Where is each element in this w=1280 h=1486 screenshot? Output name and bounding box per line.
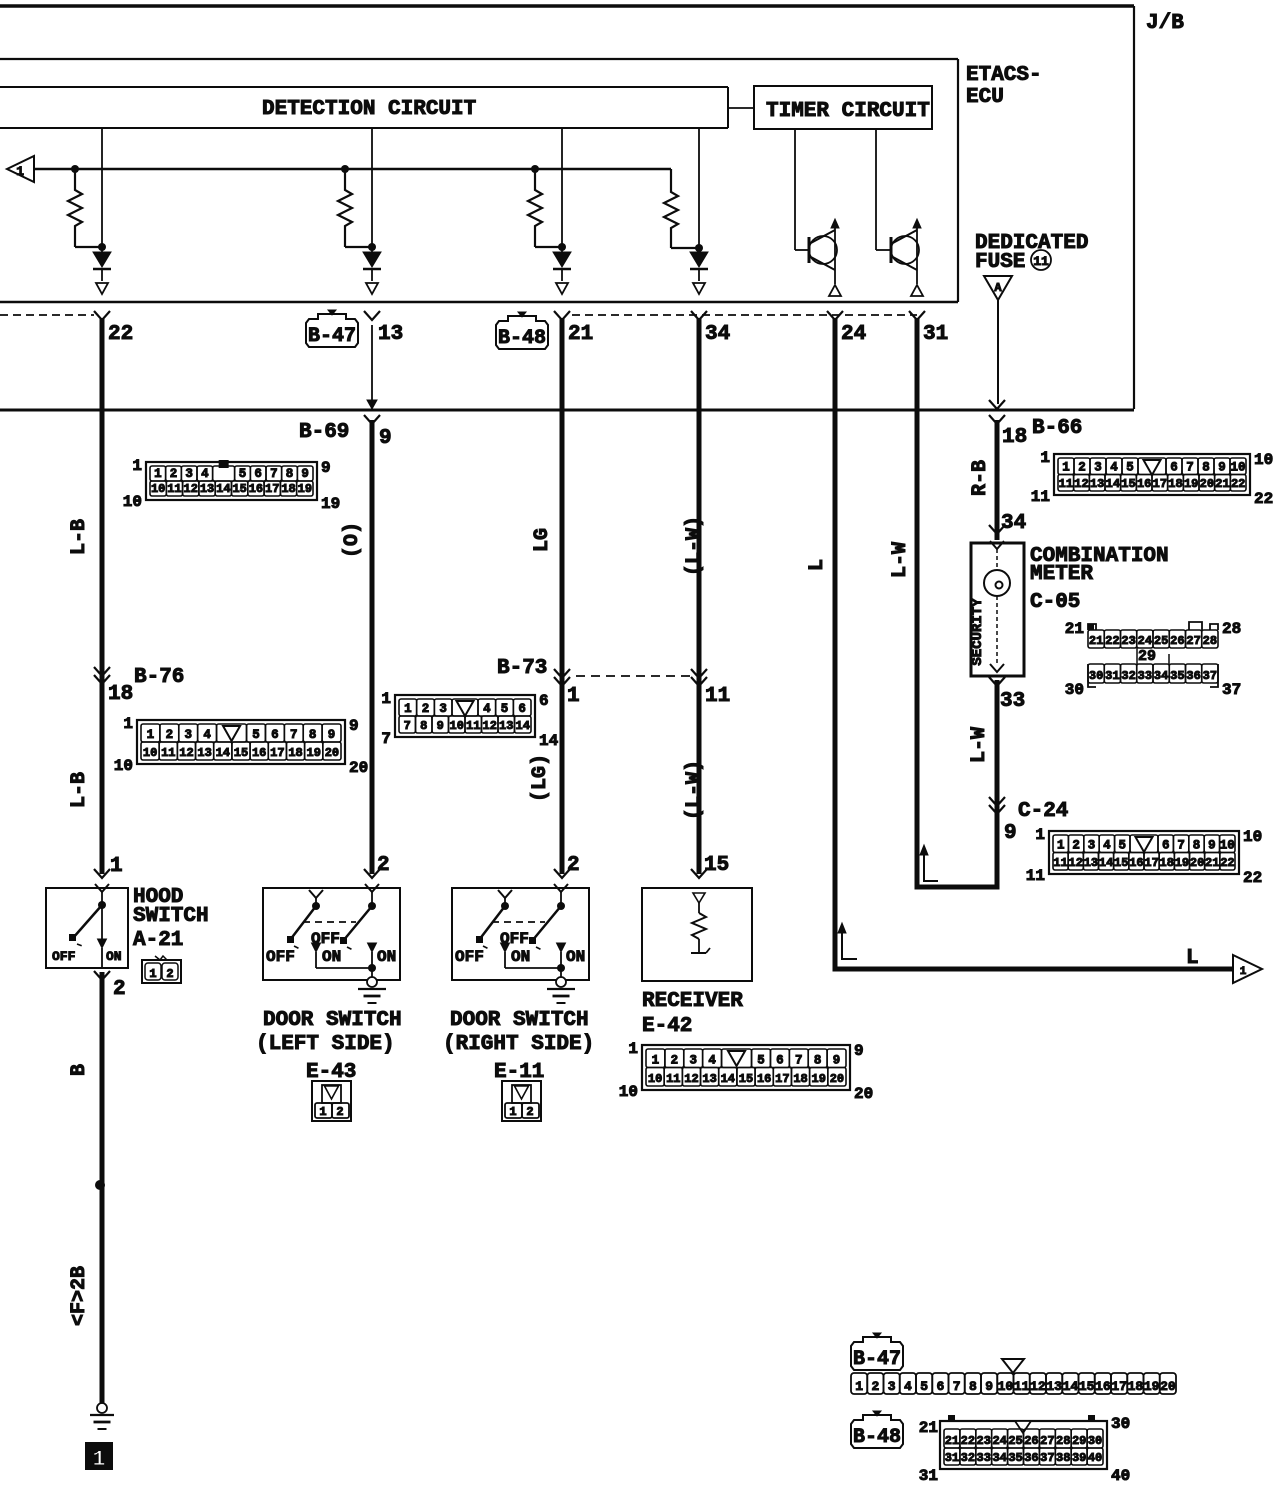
svg-text:19: 19 <box>307 746 321 760</box>
svg-text:1: 1 <box>110 855 123 878</box>
svg-text:27: 27 <box>1186 634 1200 648</box>
svg-text:20: 20 <box>830 1072 844 1086</box>
svg-text:18: 18 <box>793 1072 807 1086</box>
svg-text:1: 1 <box>149 967 156 981</box>
svg-text:20: 20 <box>325 746 339 760</box>
node receiver pin 15 <box>691 854 729 878</box>
svg-text:(L-W): (L-W) <box>683 516 706 576</box>
svg-text:B-73: B-73 <box>497 657 547 680</box>
svg-text:4: 4 <box>483 702 491 716</box>
svg-text:5: 5 <box>1126 461 1134 475</box>
svg-text:5: 5 <box>252 728 260 742</box>
label connector C-24 <box>1018 800 1068 823</box>
svg-text:8: 8 <box>286 467 294 481</box>
svg-text:DETECTION CIRCUIT: DETECTION CIRCUIT <box>262 98 476 121</box>
node ETACS pin 21 terminal <box>554 311 593 346</box>
label OFF hood <box>52 949 76 964</box>
svg-text:3: 3 <box>184 728 192 742</box>
svg-text:13: 13 <box>702 1072 716 1086</box>
svg-text:B-66: B-66 <box>1032 417 1082 440</box>
svg-text:(O): (O) <box>341 522 364 558</box>
svg-text:OFF: OFF <box>266 948 295 966</box>
svg-text:OFF: OFF <box>500 930 529 948</box>
svg-text:ON: ON <box>106 949 122 964</box>
svg-text:21: 21 <box>1205 856 1219 870</box>
wire dashed B-73 link <box>576 675 692 677</box>
svg-text:16: 16 <box>1137 477 1151 491</box>
label ON door right right <box>566 948 585 966</box>
svg-text:14: 14 <box>1106 477 1120 491</box>
svg-text:1: 1 <box>1240 966 1247 978</box>
label ON door left right <box>377 948 396 966</box>
svg-text:2: 2 <box>671 1054 679 1068</box>
label wire color LG <box>531 528 554 552</box>
svg-text:R-B: R-B <box>969 460 992 496</box>
svg-text:2: 2 <box>170 467 178 481</box>
svg-text:RECEIVER: RECEIVER <box>642 990 743 1013</box>
label OFF door left <box>266 948 295 966</box>
svg-text:11: 11 <box>666 1072 680 1086</box>
label RECEIVER E-42 <box>642 990 743 1038</box>
connector B-66 pin layout <box>1031 449 1273 508</box>
svg-text:11: 11 <box>1033 254 1049 269</box>
label DOOR SWITCH (RIGHT SIDE) E-11 <box>443 1009 594 1084</box>
label J/B <box>1146 12 1184 35</box>
node combination meter pin 34 <box>989 512 1026 535</box>
svg-text:6: 6 <box>254 467 262 481</box>
hood switch A-21 box <box>46 888 128 968</box>
svg-text:10: 10 <box>1220 839 1235 853</box>
svg-text:7: 7 <box>1186 461 1194 475</box>
svg-text:13: 13 <box>1046 1379 1062 1394</box>
svg-text:10: 10 <box>1254 451 1273 469</box>
connector C-05 pin layout <box>1065 620 1241 699</box>
svg-text:10: 10 <box>114 757 133 775</box>
label wire color L <box>806 559 829 571</box>
connector E-43 pin icon <box>312 1081 351 1121</box>
svg-text:21: 21 <box>919 1419 938 1437</box>
svg-text:33: 33 <box>1138 669 1152 683</box>
svg-text:28: 28 <box>1203 634 1217 648</box>
svg-text:L-W: L-W <box>889 542 912 578</box>
connector B-47 label <box>306 310 358 348</box>
svg-text:3: 3 <box>1088 839 1096 853</box>
svg-text:22: 22 <box>108 323 133 346</box>
svg-text:26: 26 <box>1024 1434 1038 1448</box>
svg-text:LG: LG <box>531 528 554 552</box>
label wire color L-B lower <box>68 772 91 808</box>
label OFF door left upper <box>311 930 340 948</box>
svg-text:21: 21 <box>1215 477 1229 491</box>
svg-text:1: 1 <box>1062 461 1070 475</box>
svg-text:30: 30 <box>1088 1434 1102 1448</box>
svg-text:DOOR SWITCH: DOOR SWITCH <box>450 1009 589 1032</box>
connector E-42 pin layout <box>619 1040 873 1103</box>
svg-text:15: 15 <box>704 854 729 877</box>
svg-text:18: 18 <box>1002 426 1027 449</box>
svg-text:TIMER CIRCUIT: TIMER CIRCUIT <box>766 100 930 123</box>
svg-text:L-B: L-B <box>68 519 91 555</box>
svg-text:4: 4 <box>708 1054 716 1068</box>
svg-text:20: 20 <box>349 759 368 777</box>
label ON door left <box>322 948 341 966</box>
diode D3 <box>553 128 571 294</box>
label connector B-66 <box>1002 417 1082 449</box>
svg-text:10: 10 <box>151 482 165 496</box>
svg-text:20: 20 <box>1190 856 1204 870</box>
svg-text:ECU: ECU <box>966 86 1004 109</box>
fuse dedicated fuse symbol A <box>984 276 1012 300</box>
svg-text:9: 9 <box>1208 839 1216 853</box>
detection circuit block <box>0 87 728 128</box>
svg-text:14: 14 <box>721 1072 735 1086</box>
node hood switch pin 1 <box>94 855 123 878</box>
svg-text:20: 20 <box>854 1085 873 1103</box>
svg-text:8: 8 <box>969 1379 977 1394</box>
label wire color (L-W) lower <box>683 760 706 820</box>
svg-text:2: 2 <box>422 702 430 716</box>
svg-text:8: 8 <box>309 728 317 742</box>
switch door switch left side E-43 <box>263 884 400 980</box>
node hood switch pin 2 <box>94 971 126 1001</box>
svg-text:A: A <box>994 281 1002 295</box>
svg-text:17: 17 <box>1153 477 1167 491</box>
svg-text:14: 14 <box>216 746 230 760</box>
svg-text:33: 33 <box>1000 690 1025 713</box>
svg-text:4: 4 <box>1103 839 1111 853</box>
node ETACS pin 24 terminal <box>827 311 866 346</box>
svg-text:12: 12 <box>1069 856 1083 870</box>
svg-text:16: 16 <box>757 1072 771 1086</box>
ETACS connector dashed line <box>0 314 917 316</box>
svg-text:6: 6 <box>776 1054 784 1068</box>
svg-text:2: 2 <box>526 1105 533 1119</box>
svg-text:40: 40 <box>1111 1467 1130 1485</box>
svg-text:13: 13 <box>499 719 513 733</box>
svg-text:10: 10 <box>1243 828 1262 846</box>
svg-text:22: 22 <box>1105 634 1119 648</box>
svg-text:17: 17 <box>270 746 284 760</box>
node junction bus R1 <box>71 165 79 173</box>
ground hood switch circuit <box>90 1403 114 1429</box>
svg-text:24: 24 <box>992 1434 1006 1448</box>
label wire color L-B <box>68 519 91 555</box>
svg-text:C-05: C-05 <box>1030 591 1080 614</box>
svg-text:7: 7 <box>953 1379 961 1394</box>
svg-text:7: 7 <box>381 730 391 748</box>
svg-text:17: 17 <box>775 1072 789 1086</box>
svg-text:28: 28 <box>1056 1434 1070 1448</box>
svg-text:2: 2 <box>377 854 390 877</box>
svg-text:1: 1 <box>154 467 162 481</box>
svg-text:3: 3 <box>439 702 447 716</box>
label wire color (LG) <box>529 754 552 802</box>
svg-text:14: 14 <box>516 719 530 733</box>
svg-text:19: 19 <box>812 1072 826 1086</box>
svg-text:15: 15 <box>234 746 248 760</box>
svg-text:1: 1 <box>404 702 412 716</box>
wire L-W meter to C-24 <box>995 680 1000 812</box>
svg-text:11: 11 <box>167 482 181 496</box>
svg-text:13: 13 <box>197 746 211 760</box>
svg-text:22: 22 <box>1220 856 1234 870</box>
node door switch left pin 2 <box>364 854 390 878</box>
svg-text:6: 6 <box>539 692 549 710</box>
svg-text:10: 10 <box>1230 461 1245 475</box>
combination meter box C-05 <box>971 543 1024 676</box>
svg-text:OFF: OFF <box>52 949 76 964</box>
svg-text:16: 16 <box>1095 1379 1111 1394</box>
svg-text:9: 9 <box>349 717 359 735</box>
label ON door right <box>511 948 530 966</box>
svg-text:9: 9 <box>301 467 309 481</box>
svg-text:5: 5 <box>1119 839 1127 853</box>
label wire color L-W <box>889 542 912 578</box>
svg-text:16: 16 <box>1129 856 1143 870</box>
svg-text:22: 22 <box>1243 869 1262 887</box>
svg-text:1: 1 <box>132 457 142 475</box>
svg-text:11: 11 <box>705 685 730 708</box>
svg-text:<F>2B: <F>2B <box>68 1266 91 1326</box>
svg-text:ON: ON <box>511 948 530 966</box>
svg-text:26: 26 <box>1170 634 1184 648</box>
svg-text:10: 10 <box>143 746 157 760</box>
wire B hood switch to ground <box>95 972 105 1403</box>
svg-text:(RIGHT SIDE): (RIGHT SIDE) <box>443 1033 594 1056</box>
node ETACS pin 31 terminal <box>909 311 948 346</box>
svg-text:8: 8 <box>814 1054 822 1068</box>
svg-text:8: 8 <box>420 719 427 733</box>
connector B-47 pin layout <box>851 1359 1176 1394</box>
svg-text:12: 12 <box>483 719 497 733</box>
svg-text:(L-W): (L-W) <box>683 760 706 820</box>
svg-text:2: 2 <box>166 967 173 981</box>
label ETACS-ECU <box>966 64 1042 109</box>
svg-text:16: 16 <box>252 746 266 760</box>
svg-text:8: 8 <box>1193 839 1201 853</box>
svg-text:18: 18 <box>108 683 133 706</box>
connector C-24 pin layout <box>1026 826 1262 887</box>
svg-text:34: 34 <box>1001 512 1026 535</box>
svg-text:5: 5 <box>757 1054 765 1068</box>
svg-text:28: 28 <box>1222 620 1241 638</box>
svg-text:1: 1 <box>16 164 24 179</box>
connector B-69 pin layout <box>123 457 340 513</box>
receiver box E-42 <box>642 888 752 981</box>
wire L-B pin 22 to hood switch <box>100 318 105 874</box>
svg-text:7: 7 <box>795 1054 803 1068</box>
svg-text:1: 1 <box>92 1447 105 1472</box>
svg-text:L: L <box>1186 947 1199 970</box>
svg-text:OFF: OFF <box>311 930 340 948</box>
svg-text:19: 19 <box>321 495 340 513</box>
svg-text:31: 31 <box>923 323 948 346</box>
svg-text:22: 22 <box>1254 490 1273 508</box>
svg-text:31: 31 <box>1105 669 1119 683</box>
wire meter internal bottom <box>996 596 998 665</box>
switch door switch right side E-11 <box>452 884 589 980</box>
node meter internal terminal top <box>990 541 1004 549</box>
svg-text:3: 3 <box>185 467 193 481</box>
connector B-48 label <box>496 312 548 350</box>
label connector B-69 <box>299 421 392 450</box>
svg-text:18: 18 <box>1128 1379 1144 1394</box>
svg-text:13: 13 <box>1084 856 1098 870</box>
label L at page arrow <box>1186 947 1199 970</box>
svg-text:B-47: B-47 <box>853 1348 901 1371</box>
label HOOD SWITCH A-21 <box>133 886 209 952</box>
svg-text:DOOR SWITCH: DOOR SWITCH <box>263 1009 402 1032</box>
svg-text:21: 21 <box>1089 634 1103 648</box>
svg-text:6: 6 <box>936 1379 944 1394</box>
svg-text:9: 9 <box>1218 461 1226 475</box>
svg-text:12: 12 <box>179 746 193 760</box>
label wire color L-W to C-24 <box>968 727 991 763</box>
wire fuse to connector B-66 <box>997 300 999 404</box>
svg-text:38: 38 <box>1056 1451 1070 1465</box>
svg-text:B: B <box>68 1064 91 1076</box>
svg-text:OFF: OFF <box>455 948 484 966</box>
svg-text:6: 6 <box>1162 839 1170 853</box>
svg-text:32: 32 <box>961 1451 975 1465</box>
svg-text:1: 1 <box>147 728 155 742</box>
svg-text:12: 12 <box>1074 477 1088 491</box>
svg-text:20: 20 <box>1160 1379 1176 1394</box>
antenna receiver internals <box>691 893 710 953</box>
svg-text:5: 5 <box>501 702 509 716</box>
diode D1 <box>93 128 111 294</box>
svg-text:1: 1 <box>1057 839 1065 853</box>
svg-text:15: 15 <box>1079 1379 1095 1394</box>
svg-text:4: 4 <box>904 1379 912 1394</box>
wire R1 to diode D1 <box>75 243 106 251</box>
svg-text:11: 11 <box>161 746 175 760</box>
svg-text:12: 12 <box>184 482 198 496</box>
svg-text:24: 24 <box>1138 634 1152 648</box>
wire detection to timer <box>728 107 754 109</box>
timer circuit block <box>754 86 932 129</box>
svg-text:14: 14 <box>1063 1379 1079 1394</box>
svg-text:4: 4 <box>1110 461 1118 475</box>
svg-text:14: 14 <box>1099 856 1113 870</box>
svg-text:35: 35 <box>1008 1451 1022 1465</box>
svg-text:5: 5 <box>920 1379 928 1394</box>
label wire color B <box>68 1064 91 1076</box>
node connector B-66 pin 18 crossing <box>989 400 1005 424</box>
svg-text:29: 29 <box>1138 648 1156 665</box>
svg-text:3: 3 <box>888 1379 896 1394</box>
svg-text:7: 7 <box>270 467 278 481</box>
svg-text:11: 11 <box>1031 488 1050 506</box>
svg-text:B-47: B-47 <box>308 325 356 348</box>
svg-text:1: 1 <box>509 1105 516 1119</box>
svg-text:7: 7 <box>404 719 411 733</box>
svg-text:11: 11 <box>466 719 480 733</box>
svg-text:SECURITY: SECURITY <box>970 598 986 666</box>
svg-text:19: 19 <box>1175 856 1189 870</box>
svg-text:1: 1 <box>567 685 580 708</box>
diode D2 <box>363 128 381 294</box>
svg-text:6: 6 <box>518 702 526 716</box>
svg-text:2: 2 <box>336 1105 343 1119</box>
svg-text:B-69: B-69 <box>299 421 349 444</box>
svg-text:30: 30 <box>1089 669 1103 683</box>
svg-text:34: 34 <box>705 323 730 346</box>
svg-text:14: 14 <box>539 732 559 750</box>
label OFF door right <box>455 948 484 966</box>
svg-text:B-48: B-48 <box>853 1426 901 1449</box>
svg-text:E-42: E-42 <box>642 1015 692 1038</box>
svg-text:10: 10 <box>998 1379 1014 1394</box>
wire L pin 24 to page arrow <box>835 318 1233 969</box>
svg-text:L: L <box>806 559 829 571</box>
svg-text:SWITCH: SWITCH <box>133 905 209 928</box>
svg-text:METER: METER <box>1030 563 1093 586</box>
svg-text:13: 13 <box>1090 477 1104 491</box>
svg-text:4: 4 <box>203 728 211 742</box>
wire internal pull-up bus <box>34 168 671 171</box>
svg-text:34: 34 <box>1154 669 1168 683</box>
svg-text:L-W: L-W <box>968 727 991 763</box>
label COMBINATION METER C-05 <box>1030 545 1169 614</box>
label wire color (L-W) <box>683 516 706 576</box>
svg-text:4: 4 <box>201 467 209 481</box>
svg-text:(LEFT SIDE): (LEFT SIDE) <box>256 1033 395 1056</box>
svg-text:2: 2 <box>871 1379 879 1394</box>
svg-text:9: 9 <box>437 719 444 733</box>
svg-text:31: 31 <box>945 1451 959 1465</box>
ground door switch left <box>358 977 386 1003</box>
svg-text:9: 9 <box>854 1042 864 1060</box>
svg-text:22: 22 <box>961 1434 975 1448</box>
svg-text:6: 6 <box>271 728 279 742</box>
svg-text:1: 1 <box>1035 826 1045 844</box>
svg-text:31: 31 <box>919 1467 938 1485</box>
svg-text:ETACS-: ETACS- <box>966 64 1042 87</box>
svg-text:37: 37 <box>1040 1451 1054 1465</box>
svg-text:L-B: L-B <box>68 772 91 808</box>
connector B-47 label bottom <box>851 1333 903 1371</box>
svg-text:25: 25 <box>1008 1434 1022 1448</box>
svg-text:17: 17 <box>265 482 279 496</box>
transistor Q2 <box>876 129 923 296</box>
wire meter internal top <box>996 549 998 570</box>
svg-text:(LG): (LG) <box>529 754 552 802</box>
svg-text:1: 1 <box>123 715 133 733</box>
node junction bus R3 <box>531 165 539 173</box>
svg-text:3: 3 <box>1094 461 1102 475</box>
svg-text:3: 3 <box>689 1054 697 1068</box>
svg-text:1: 1 <box>628 1040 638 1058</box>
svg-text:7: 7 <box>290 728 298 742</box>
label wire color R-B <box>969 460 992 496</box>
svg-text:17: 17 <box>1144 856 1158 870</box>
svg-text:2: 2 <box>567 854 580 877</box>
svg-text:13: 13 <box>378 323 403 346</box>
node direction arrow on wire L <box>838 923 857 959</box>
svg-text:18: 18 <box>281 482 295 496</box>
label DOOR SWITCH (LEFT SIDE) E-43 <box>256 1009 402 1084</box>
node page continuation arrow right <box>1233 955 1262 983</box>
svg-text:13: 13 <box>200 482 214 496</box>
svg-text:33: 33 <box>977 1451 991 1465</box>
connector A-21 pin icon <box>142 956 181 983</box>
label wire color (O) <box>341 522 364 558</box>
svg-text:11: 11 <box>1053 856 1067 870</box>
node ETACS pin 34 terminal <box>691 311 730 346</box>
connector B-48 label bottom <box>851 1411 903 1449</box>
svg-text:29: 29 <box>1072 1434 1086 1448</box>
